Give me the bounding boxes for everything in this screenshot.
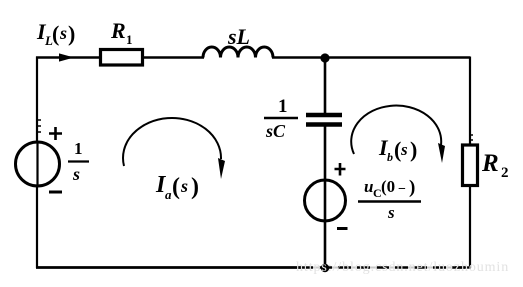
inductor sL <box>203 47 273 58</box>
polarity + (left source) <box>49 127 62 140</box>
svg-text:R: R <box>110 18 126 43</box>
svg-text:s: s <box>59 23 67 43</box>
svg-text:1: 1 <box>278 96 288 117</box>
svg-text:): ) <box>409 177 415 198</box>
svg-text:1: 1 <box>126 32 133 47</box>
svg-text:sC: sC <box>265 121 286 141</box>
resistor R1 <box>101 50 143 66</box>
wire: capacitor branch lower <box>324 221 327 268</box>
svg-text:−: − <box>398 182 406 197</box>
mesh arrow Ia(s) <box>123 118 221 166</box>
svg-text:(: ( <box>52 21 59 46</box>
wire: left vertical <box>36 57 38 269</box>
svg-text:(0: (0 <box>381 177 395 196</box>
svg-text:https://blog.csdn.net/luozhoum: https://blog.csdn.net/luozhoumin <box>296 260 509 275</box>
svg-text:sL: sL <box>227 24 250 49</box>
wire: capacitor branch upper <box>324 58 327 115</box>
arrow: current direction I_L(s) <box>59 53 74 61</box>
svg-text:): ) <box>410 137 417 162</box>
node: bottom junction <box>321 264 329 272</box>
wire: top right of coil <box>272 56 470 58</box>
svg-text:(: ( <box>172 174 180 200</box>
svg-text:R: R <box>481 150 499 177</box>
svg-text:a: a <box>165 187 172 202</box>
wire artifact ticks (left wire) <box>37 120 41 132</box>
svg-text:): ) <box>68 21 75 46</box>
polarity - (middle source) <box>337 227 348 230</box>
node: top junction <box>320 53 329 62</box>
svg-text:1: 1 <box>74 139 83 158</box>
wire: top horizontal <box>36 56 204 58</box>
wire: right vertical <box>469 57 471 269</box>
mesh arrow Ib(s) <box>351 106 441 154</box>
voltage source uC(0-)/s <box>305 180 346 221</box>
svg-text:s: s <box>400 140 408 159</box>
polarity + (middle source) <box>335 163 346 176</box>
svg-text:): ) <box>191 174 199 200</box>
voltage source 1/s (left) <box>16 142 60 186</box>
wire: capacitor branch middle <box>324 124 327 181</box>
resistor R2 <box>463 145 478 186</box>
wire: bottom horizontal <box>36 266 302 269</box>
svg-text:2: 2 <box>501 165 509 181</box>
svg-text:s: s <box>180 176 188 196</box>
svg-text:s: s <box>72 164 80 184</box>
svg-text:s: s <box>387 203 395 222</box>
svg-text:b: b <box>387 150 393 164</box>
wire artifact ticks (right wire) <box>470 135 473 140</box>
capacitor C plates <box>306 113 342 118</box>
polarity - (left source) <box>49 191 62 194</box>
